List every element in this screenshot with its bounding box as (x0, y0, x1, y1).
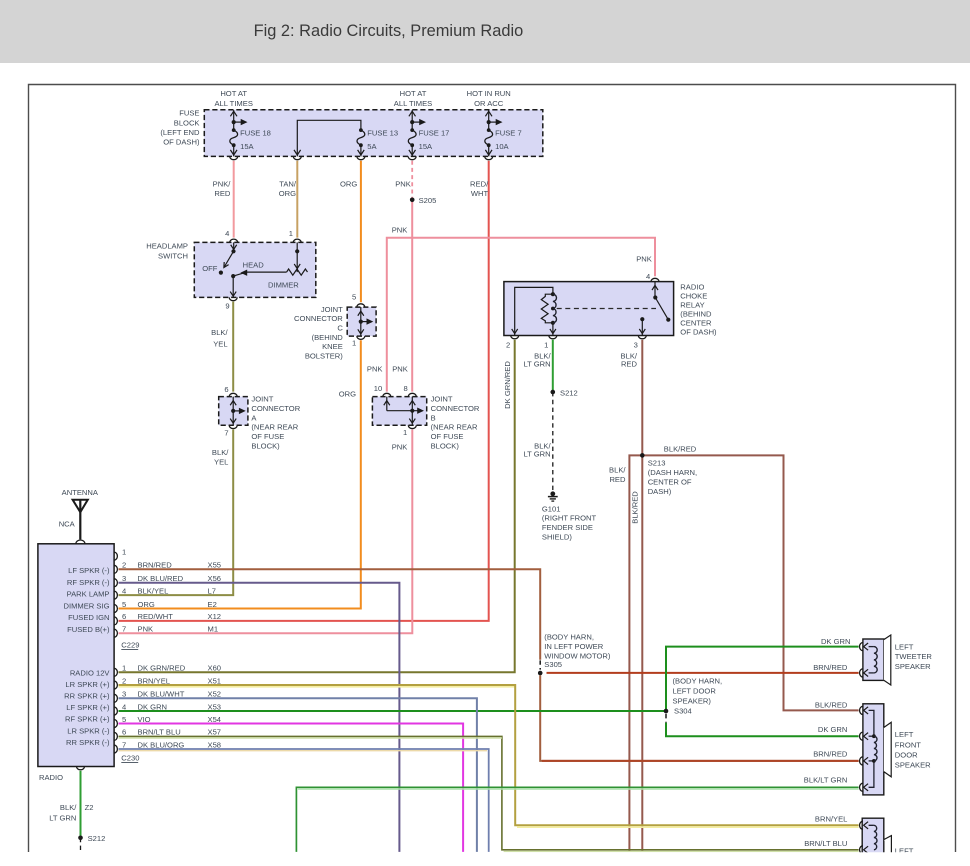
svg-text:X53: X53 (208, 702, 222, 711)
svg-text:HEAD: HEAD (243, 261, 265, 270)
svg-text:RADIO: RADIO (680, 282, 704, 291)
svg-text:PNK: PNK (367, 364, 383, 373)
joint connector C label (294, 305, 343, 361)
svg-text:BLK/: BLK/ (60, 803, 77, 812)
svg-text:S212: S212 (560, 388, 578, 397)
left front door speaker label (895, 730, 931, 769)
svg-text:3: 3 (122, 574, 126, 583)
svg-text:9: 9 (225, 302, 229, 311)
svg-text:HEADLAMP: HEADLAMP (146, 241, 188, 250)
relay pin 4 and switch contact (646, 272, 670, 322)
svg-text:OF DASH): OF DASH) (163, 138, 200, 147)
svg-text:DASH): DASH) (648, 487, 672, 496)
svg-text:ORG: ORG (340, 179, 357, 188)
svg-text:PNK: PNK (636, 254, 652, 263)
svg-text:1: 1 (122, 547, 126, 556)
wire VIO radio C230 pin 5 down to cut (119, 724, 464, 852)
svg-text:2: 2 (122, 676, 126, 685)
svg-text:5: 5 (122, 600, 126, 609)
svg-text:1: 1 (403, 428, 407, 437)
svg-text:RED: RED (214, 189, 231, 198)
svg-text:BLK/RED: BLK/RED (664, 445, 697, 454)
svg-text:B: B (431, 413, 436, 422)
left rear speaker (clipped at bottom) (860, 818, 914, 855)
svg-text:RED: RED (621, 360, 638, 369)
svg-text:SPEAKER: SPEAKER (895, 761, 931, 770)
svg-text:LF SPKR (-): LF SPKR (-) (68, 566, 110, 575)
svg-text:7: 7 (122, 625, 126, 634)
svg-text:IN LEFT POWER: IN LEFT POWER (544, 642, 603, 651)
svg-text:DK GRN/RED: DK GRN/RED (503, 361, 512, 409)
svg-text:YEL: YEL (214, 457, 228, 466)
wire BLK/RED relay pin 3 to splice S213 (621, 340, 643, 456)
splice S304 label (673, 677, 723, 716)
svg-text:X55: X55 (208, 561, 222, 570)
svg-text:YEL: YEL (213, 339, 227, 348)
svg-text:VIO: VIO (138, 715, 151, 724)
svg-text:X52: X52 (208, 690, 222, 699)
label HOT AT ALL TIMES (fuse 18) (214, 89, 252, 108)
svg-text:4: 4 (225, 229, 229, 238)
left front door speaker (860, 704, 892, 795)
radio choke relay label (680, 282, 717, 336)
svg-text:OF FUSE: OF FUSE (431, 432, 464, 441)
ground G101 label (542, 504, 597, 541)
svg-text:6: 6 (122, 728, 126, 737)
wire TAN/ORG fuse13-feed to headlamp switch pin 1 (279, 161, 298, 238)
svg-text:(RIGHT FRONT: (RIGHT FRONT (542, 514, 597, 523)
radio C229 connector pins (64, 547, 222, 649)
fuse 7 10A (485, 110, 522, 159)
relay coil (541, 292, 556, 325)
wire BLK/RED S213 straight down to cut (630, 455, 642, 852)
wire ORG fuse13 to joint connector C pin 5 (340, 161, 361, 303)
svg-text:ORG: ORG (138, 600, 155, 609)
svg-text:X57: X57 (208, 728, 222, 737)
wire PNK joint connector B pin 1 to radio C229 pin 7 (119, 430, 413, 634)
svg-text:(BODY HARN,: (BODY HARN, (673, 677, 723, 686)
splice S212 (radio branch) (78, 834, 105, 843)
svg-text:RED/WHT: RED/WHT (138, 612, 174, 621)
splice S213 (640, 453, 644, 457)
label HOT AT ALL TIMES (fuse 17) (394, 89, 432, 108)
svg-text:5: 5 (352, 292, 356, 301)
svg-text:6: 6 (224, 385, 228, 394)
svg-text:C229: C229 (121, 641, 139, 650)
svg-text:HOT AT: HOT AT (400, 89, 427, 98)
splice dots overlay (78, 198, 668, 841)
svg-text:7: 7 (224, 429, 228, 438)
svg-text:NCA: NCA (59, 519, 76, 528)
svg-text:HOT AT: HOT AT (220, 89, 247, 98)
svg-text:CONNECTOR: CONNECTOR (431, 404, 480, 413)
svg-text:X56: X56 (208, 574, 222, 583)
svg-text:JOINT: JOINT (251, 395, 273, 404)
headlamp switch dimmer resistor (247, 269, 308, 290)
svg-text:(NEAR REAR: (NEAR REAR (431, 423, 478, 432)
svg-text:S304: S304 (674, 706, 692, 715)
svg-text:DK GRN/RED: DK GRN/RED (138, 664, 186, 673)
wire BLK/LT GRN from cut to left front door speaker pin 4 (296, 776, 858, 852)
fuse 18 15A (230, 110, 271, 159)
joint connector A label (251, 395, 300, 451)
svg-text:KNEE: KNEE (322, 342, 343, 351)
svg-text:FUSE 18: FUSE 18 (240, 129, 271, 138)
svg-text:TWEETER: TWEETER (895, 652, 933, 661)
svg-text:RR SPKR (+): RR SPKR (+) (64, 692, 110, 701)
svg-text:CONNECTOR: CONNECTOR (294, 314, 343, 323)
wire DK GRN radio C230 pin 4 to splice S304 (119, 710, 667, 712)
wire RED/WHT fuse7 to radio C229 pin 6 (119, 161, 490, 621)
fuse 13 5A feed wire (293, 120, 361, 159)
svg-text:RED: RED (609, 475, 626, 484)
svg-text:CENTER OF: CENTER OF (648, 478, 692, 487)
svg-text:(BEHIND: (BEHIND (680, 309, 712, 318)
svg-text:SPEAKER: SPEAKER (895, 662, 931, 671)
svg-text:Z2: Z2 (85, 803, 94, 812)
svg-text:4: 4 (122, 586, 126, 595)
svg-text:LF SPKR (+): LF SPKR (+) (66, 703, 110, 712)
svg-text:OF DASH): OF DASH) (680, 328, 717, 337)
svg-text:BRN/RED: BRN/RED (138, 561, 173, 570)
svg-text:S213: S213 (648, 458, 666, 467)
svg-text:FENDER SIDE: FENDER SIDE (542, 523, 593, 532)
wire BLK/LT GRN relay pin 1 to splice S212 (523, 340, 552, 392)
wire BLK/YEL switch pin 9 to joint connector A pin 6 (211, 302, 233, 392)
wire DK BLU/RED radio C229 pin 3 down to cut (119, 583, 400, 852)
dashed wire S212 to ground G101 (523, 392, 552, 494)
wire BLK/YEL joint connector A pin 7 to radio C229 pin 4 (119, 430, 234, 596)
svg-text:OFF: OFF (202, 264, 218, 273)
wire ORG joint connector C pin 1 to radio C229 pin 5 (119, 340, 361, 608)
splice S305 label (544, 633, 611, 669)
svg-text:BLK/RED: BLK/RED (815, 701, 848, 710)
svg-text:LT GRN: LT GRN (523, 360, 550, 369)
radio C230 connector pins (64, 664, 221, 763)
svg-text:DK GRN: DK GRN (821, 637, 851, 646)
svg-text:(BODY HARN,: (BODY HARN, (544, 633, 594, 642)
svg-text:CENTER: CENTER (680, 319, 712, 328)
svg-text:(BEHIND: (BEHIND (312, 333, 344, 342)
svg-text:PARK LAMP: PARK LAMP (67, 590, 110, 599)
svg-text:RF SPKR (+): RF SPKR (+) (65, 715, 110, 724)
svg-text:DIMMER SIG: DIMMER SIG (64, 601, 110, 610)
svg-text:FRONT: FRONT (895, 740, 922, 749)
svg-text:PNK: PNK (395, 179, 411, 188)
relay coil to pin 2 wire (506, 287, 553, 349)
svg-text:BLK/YEL: BLK/YEL (138, 586, 169, 595)
svg-text:LEFT: LEFT (895, 642, 914, 651)
svg-text:1: 1 (289, 229, 293, 238)
splice S213 label (648, 458, 697, 496)
relay pin 3 contact (634, 317, 647, 349)
svg-text:Fig 2: Radio Circuits, Premium: Fig 2: Radio Circuits, Premium Radio (254, 22, 524, 40)
svg-text:FUSE 13: FUSE 13 (367, 129, 398, 138)
svg-text:BLK/RED: BLK/RED (630, 491, 639, 524)
antenna (59, 488, 99, 539)
wire BLK/LT GRN radio to splice S212 (49, 771, 93, 838)
svg-text:LT GRN: LT GRN (523, 450, 550, 459)
svg-text:15A: 15A (419, 142, 433, 151)
wire BRN/YEL radio C230 pin 2 to left rear speaker (119, 685, 859, 827)
joint connector C (347, 292, 376, 347)
relay mechanical linkage dashed (557, 308, 656, 310)
svg-text:BRN/YEL: BRN/YEL (138, 676, 171, 685)
dashed wire below S212 to cut (80, 838, 82, 852)
svg-text:X58: X58 (208, 740, 222, 749)
svg-text:ALL TIMES: ALL TIMES (394, 99, 432, 108)
svg-text:RADIO: RADIO (39, 773, 63, 782)
svg-text:ORG: ORG (279, 189, 296, 198)
fuse block (left end of dash) (160, 109, 542, 157)
svg-text:C: C (337, 324, 343, 333)
svg-text:ORG: ORG (339, 389, 356, 398)
svg-text:TAN/: TAN/ (279, 179, 297, 188)
svg-text:8: 8 (403, 384, 407, 393)
wire DK BLU/ORG radio C230 pin 7 down to cut (119, 749, 489, 852)
title bar (0, 0, 970, 63)
svg-text:LEFT DOOR: LEFT DOOR (673, 687, 717, 696)
headlamp switch pin 9 (225, 276, 237, 311)
svg-text:PNK: PNK (392, 364, 408, 373)
svg-text:FUSE 17: FUSE 17 (419, 129, 450, 138)
svg-text:RR SPKR (-): RR SPKR (-) (66, 738, 110, 747)
svg-text:X51: X51 (208, 676, 222, 685)
svg-text:3: 3 (122, 690, 126, 699)
radio bottom pin Z2 (77, 767, 85, 770)
wire DK BLU/WHT radio C230 pin 3 down to cut (119, 698, 477, 852)
svg-text:SPEAKER): SPEAKER) (673, 697, 712, 706)
svg-text:X60: X60 (208, 664, 222, 673)
svg-text:DIMMER: DIMMER (268, 281, 299, 290)
svg-text:RELAY: RELAY (680, 300, 704, 309)
svg-text:S205: S205 (419, 196, 437, 205)
headlamp switch (146, 241, 316, 297)
svg-text:BRN/RED: BRN/RED (813, 663, 848, 672)
svg-text:DK BLU/RED: DK BLU/RED (138, 574, 184, 583)
svg-text:2: 2 (506, 340, 510, 349)
svg-text:FUSE 7: FUSE 7 (495, 129, 522, 138)
svg-text:DK BLU/ORG: DK BLU/ORG (138, 740, 185, 749)
radio choke relay (504, 282, 674, 336)
headlamp switch wiper lever and OFF contact (202, 251, 233, 274)
joint connector A (219, 385, 248, 437)
svg-text:(DASH HARN,: (DASH HARN, (648, 468, 697, 477)
svg-text:X12: X12 (208, 612, 222, 621)
splice S212 (relay branch) (551, 388, 578, 397)
svg-text:RF SPKR (-): RF SPKR (-) (67, 578, 110, 587)
svg-text:PNK: PNK (392, 442, 408, 451)
left tweeter speaker label (895, 642, 933, 671)
svg-text:LT GRN: LT GRN (49, 813, 76, 822)
joint connector B (372, 384, 426, 437)
svg-text:PNK/: PNK/ (213, 179, 232, 188)
svg-text:(NEAR REAR: (NEAR REAR (251, 423, 298, 432)
svg-text:X54: X54 (208, 715, 222, 724)
svg-text:4: 4 (646, 272, 650, 281)
ground G101 (548, 491, 558, 501)
svg-text:BRN/RED: BRN/RED (813, 749, 848, 758)
svg-text:ALL TIMES: ALL TIMES (214, 99, 252, 108)
svg-text:E2: E2 (208, 600, 217, 609)
wire DK GRN S304 to left front door speaker pin 2 (666, 714, 859, 736)
svg-text:(LEFT END: (LEFT END (160, 128, 200, 137)
svg-text:SWITCH: SWITCH (158, 251, 188, 260)
headlamp switch pin 4 (225, 229, 238, 253)
svg-text:BLK/: BLK/ (211, 328, 228, 337)
svg-text:3: 3 (634, 340, 638, 349)
svg-text:S305: S305 (544, 660, 562, 669)
svg-text:OF FUSE: OF FUSE (251, 432, 284, 441)
wire BRN/LT BLU radio C230 pin 6 to left rear speaker (119, 736, 859, 851)
svg-text:PNK: PNK (392, 226, 408, 235)
svg-text:5A: 5A (367, 142, 377, 151)
label HOT IN RUN OR ACC (fuse 7) (467, 89, 511, 108)
svg-text:G101: G101 (542, 504, 561, 513)
svg-text:LR SPKR (-): LR SPKR (-) (67, 726, 110, 735)
svg-text:BRN/LT BLU: BRN/LT BLU (804, 839, 847, 848)
svg-text:BLK/: BLK/ (609, 465, 626, 474)
wire BRN/RED S305 to left tweeter speaker pin 2 (547, 663, 859, 673)
svg-text:C230: C230 (121, 753, 139, 762)
splice S305 (538, 671, 542, 675)
splice S304 (664, 709, 668, 713)
svg-text:RADIO 12V: RADIO 12V (70, 669, 111, 678)
wire PNK fuse17 dashed to splice S205 (395, 161, 412, 200)
wire BRN/RED radio C229 pin 2 to splice S305 (119, 569, 541, 669)
svg-text:2: 2 (122, 561, 126, 570)
svg-text:DOOR: DOOR (895, 750, 918, 759)
svg-text:FUSED B(+): FUSED B(+) (67, 625, 110, 634)
wire BLK/RED S213 left branch down to cut (609, 455, 642, 852)
wire PNK joint connector B pin 10 to radio choke relay pin 4 (367, 226, 655, 392)
svg-text:PNK: PNK (138, 625, 154, 634)
svg-text:OR ACC: OR ACC (474, 99, 504, 108)
svg-text:5: 5 (122, 715, 126, 724)
wire DK GRN/RED relay pin 2 to radio C230 pin 1 (119, 340, 515, 673)
svg-text:7: 7 (122, 740, 126, 749)
svg-text:10: 10 (374, 384, 382, 393)
svg-text:ANTENNA: ANTENNA (62, 488, 99, 497)
svg-text:JOINT: JOINT (321, 305, 343, 314)
svg-text:1: 1 (122, 664, 126, 673)
svg-text:BRN/LT BLU: BRN/LT BLU (138, 728, 181, 737)
svg-text:S212: S212 (88, 834, 106, 843)
svg-text:FUSED IGN: FUSED IGN (68, 613, 109, 622)
svg-text:4: 4 (122, 702, 126, 711)
svg-text:BRN/YEL: BRN/YEL (815, 815, 848, 824)
svg-text:10A: 10A (495, 142, 509, 151)
relay coil to pin 1 wire (544, 323, 557, 350)
svg-text:6: 6 (122, 612, 126, 621)
fuse 17 15A (408, 110, 449, 159)
svg-text:BOLSTER): BOLSTER) (305, 351, 343, 360)
svg-text:BLOCK: BLOCK (174, 118, 200, 127)
svg-text:DK GRN: DK GRN (818, 725, 848, 734)
splice S205 (410, 196, 436, 205)
svg-text:LEFT: LEFT (895, 730, 914, 739)
svg-text:M1: M1 (208, 625, 219, 634)
svg-text:CONNECTOR: CONNECTOR (251, 404, 300, 413)
radio (38, 540, 114, 782)
wire PNK S205 to joint connector B pin 8 (392, 200, 412, 392)
svg-text:DK BLU/WHT: DK BLU/WHT (138, 690, 185, 699)
svg-text:DK GRN: DK GRN (138, 702, 168, 711)
svg-text:BLK/: BLK/ (212, 448, 229, 457)
svg-text:BLOCK): BLOCK) (251, 441, 280, 450)
joint connector B label (431, 395, 480, 451)
svg-text:RED/: RED/ (470, 179, 489, 188)
svg-text:CHOKE: CHOKE (680, 291, 707, 300)
wire BRN/RED S305 to left front door speaker pin 3 (540, 675, 858, 761)
svg-text:FUSE: FUSE (179, 109, 199, 118)
svg-text:BLOCK): BLOCK) (431, 441, 460, 450)
headlamp switch HEAD contact (231, 261, 264, 279)
headlamp switch pin 1 (289, 229, 301, 272)
svg-text:L7: L7 (208, 586, 216, 595)
svg-text:HOT IN RUN: HOT IN RUN (467, 89, 511, 98)
svg-text:LR SPKR (+): LR SPKR (+) (65, 680, 110, 689)
left tweeter speaker (860, 635, 891, 685)
svg-text:15A: 15A (240, 142, 254, 151)
svg-text:JOINT: JOINT (431, 395, 453, 404)
wire DK GRN S304 to left tweeter speaker pin 1 (666, 637, 859, 711)
svg-text:1: 1 (352, 338, 356, 347)
svg-text:SHIELD): SHIELD) (542, 533, 572, 542)
wire BLK/RED S213 to left front door speaker pin 1 (642, 445, 858, 711)
wire PNK/RED fuse18 to headlamp switch pin 4 (213, 161, 234, 238)
svg-text:WHT: WHT (471, 189, 489, 198)
svg-text:1: 1 (544, 340, 548, 349)
svg-text:BLK/LT GRN: BLK/LT GRN (804, 776, 848, 785)
fuse 13 5A (357, 128, 398, 159)
